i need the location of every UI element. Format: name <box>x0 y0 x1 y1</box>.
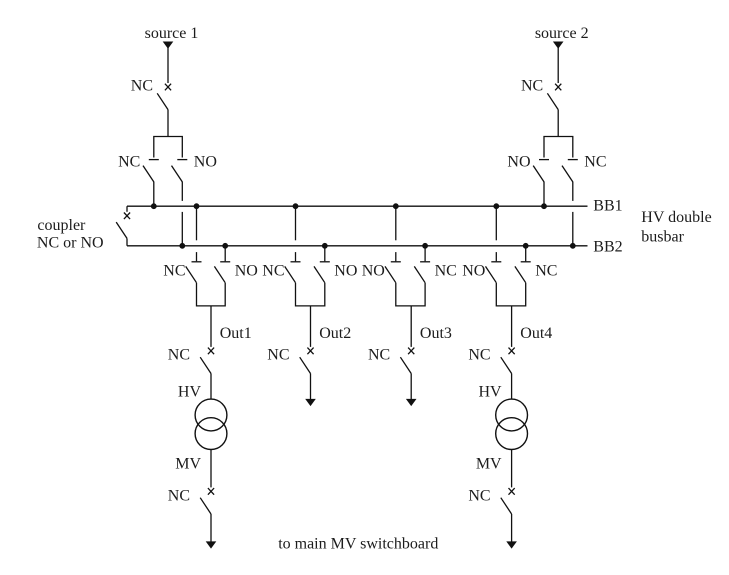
feeder Out2 junction on BB1 <box>293 204 298 209</box>
feeder Out3 left selector blade <box>385 266 396 282</box>
source 2 busbar selector bracket <box>544 137 573 158</box>
svg-text:Out3: Out3 <box>420 325 452 342</box>
source 1 left branch wire to BB1 <box>153 182 155 207</box>
feeder Out1 MV breaker x mark <box>208 488 214 495</box>
svg-text:coupler: coupler <box>37 217 86 234</box>
coupler wire stub to BB2 <box>126 238 128 245</box>
source 1 junction on BB1 <box>151 204 156 209</box>
feeder Out3 breaker x mark <box>408 348 414 355</box>
source 1 disconnector blade <box>157 93 168 109</box>
source 2 selector left blade <box>533 166 544 182</box>
source 1 breaker x mark <box>165 84 171 91</box>
source 1 incomer wire <box>167 47 169 83</box>
svg-text:NO: NO <box>462 263 485 280</box>
svg-text:source 1: source 1 <box>145 25 199 42</box>
source 1 right branch wire crossing BB1 to BB2 <box>181 212 183 246</box>
svg-text:HV double: HV double <box>641 209 711 226</box>
svg-text:to main MV switchboard: to main MV switchboard <box>278 536 438 553</box>
svg-text:NO: NO <box>194 153 217 170</box>
coupler breaker x mark <box>124 213 130 220</box>
svg-text:Out1: Out1 <box>220 325 252 342</box>
svg-text:BB1: BB1 <box>593 197 622 214</box>
source 1 busbar selector bracket <box>154 137 183 158</box>
feeder Out2 left selector blade <box>285 266 296 282</box>
source 2 wire to busbar selector <box>557 110 559 137</box>
feeder Out3 selector bracket <box>396 283 425 306</box>
source 1 right branch wire upper <box>181 182 183 201</box>
feeder Out1 junction on BB1 <box>194 204 199 209</box>
feeder Out3 outgoing wire <box>410 306 412 347</box>
feeder Out4 transformer T4 <box>496 399 528 449</box>
svg-text:MV: MV <box>175 455 201 472</box>
feeder Out4 selector bracket <box>496 283 525 306</box>
feeder Out1 left selector blade <box>186 266 197 282</box>
feeder Out2 right fixed contact <box>320 261 330 263</box>
source 2 left branch wire to BB1 <box>543 182 545 207</box>
svg-text:NC: NC <box>521 78 543 95</box>
source 2 junction on BB2 <box>570 243 575 248</box>
svg-text:NO: NO <box>235 263 258 280</box>
feeder Out4 left wire below BB2 crossing <box>495 252 497 261</box>
feeder Out4 right selector blade <box>515 266 526 282</box>
feeder Out3 junction on BB1 <box>393 204 398 209</box>
feeder Out2 disconnector blade <box>300 357 311 373</box>
feeder Out4 wire to transformer <box>511 374 513 400</box>
feeder Out2 outgoing wire <box>310 306 312 347</box>
feeder Out1 disconnector blade <box>200 357 211 373</box>
feeder Out1 outgoing wire <box>210 306 212 347</box>
svg-text:NC: NC <box>168 347 190 364</box>
feeder Out1 outgoing arrow to MV switchboard <box>206 541 217 548</box>
feeder Out1 junction on BB2 <box>223 243 228 248</box>
feeder Out1 MV side wire <box>210 450 212 488</box>
source 2 selector right blade <box>562 166 573 182</box>
feeder Out1 right selector blade <box>214 266 225 282</box>
svg-text:Out2: Out2 <box>319 325 351 342</box>
svg-text:Out4: Out4 <box>520 325 552 342</box>
feeder Out2 left wire from BB1 <box>295 206 297 240</box>
svg-text:NC: NC <box>267 347 289 364</box>
svg-text:NC: NC <box>168 488 190 505</box>
svg-text:HV: HV <box>478 383 502 400</box>
coupler wire stub from BB1 <box>126 206 128 212</box>
source 2 selector left fixed contact <box>539 159 549 161</box>
source 2 breaker x mark <box>555 84 561 91</box>
svg-text:source 2: source 2 <box>535 25 589 42</box>
feeder Out3 left wire below BB2 crossing <box>395 252 397 261</box>
source 2 disconnector blade <box>547 93 558 109</box>
source 2 selector right fixed contact <box>568 159 578 161</box>
feeder Out4 left selector blade <box>486 266 497 282</box>
feeder Out2 selector bracket <box>296 283 325 306</box>
svg-text:NO: NO <box>362 263 385 280</box>
feeder Out4 right fixed contact <box>521 261 531 263</box>
feeder Out4 MV breaker x mark <box>509 488 515 495</box>
feeder Out4 outgoing wire <box>511 306 513 347</box>
source 2 incoming feed arrow <box>553 42 564 49</box>
feeder Out2 outgoing arrow <box>305 399 316 406</box>
feeder Out4 MV disconnector blade <box>501 498 512 514</box>
source 1 incoming feed arrow <box>163 42 174 49</box>
feeder Out4 MV side wire <box>511 450 513 488</box>
feeder Out3 wire to MV arrow <box>410 374 412 401</box>
feeder Out3 left wire from BB1 <box>395 206 397 240</box>
feeder Out1 right wire from BB2 <box>224 246 226 261</box>
busbar BB2 <box>127 245 588 247</box>
source 1 selector right blade <box>172 166 183 182</box>
svg-text:NC: NC <box>163 263 185 280</box>
feeder Out3 left fixed contact <box>391 261 401 263</box>
feeder Out4 right wire from BB2 <box>525 246 527 261</box>
feeder Out4 outgoing arrow to MV switchboard <box>506 541 517 548</box>
feeder Out1 left wire from BB1 <box>196 206 198 240</box>
feeder Out4 wire to MV switchboard arrow <box>511 514 513 542</box>
svg-text:BB2: BB2 <box>593 238 622 255</box>
feeder Out2 junction on BB2 <box>322 243 327 248</box>
source 2 right branch wire upper <box>572 182 574 201</box>
feeder Out2 left fixed contact <box>291 261 301 263</box>
feeder Out4 junction on BB1 <box>494 204 499 209</box>
feeder Out1 left fixed contact <box>192 261 202 263</box>
feeder Out1 left wire below BB2 crossing <box>196 252 198 261</box>
source 1 selector left blade <box>143 166 154 182</box>
feeder Out1 wire to MV switchboard arrow <box>210 514 212 542</box>
svg-text:NC: NC <box>535 263 557 280</box>
busbar BB1 <box>127 205 588 207</box>
svg-text:NC: NC <box>468 488 490 505</box>
feeder Out2 left wire below BB2 crossing <box>295 252 297 261</box>
feeder Out2 right selector blade <box>314 266 325 282</box>
feeder Out3 right fixed contact <box>420 261 430 263</box>
feeder Out3 right wire from BB2 <box>424 246 426 261</box>
svg-text:busbar: busbar <box>641 228 684 245</box>
svg-text:MV: MV <box>476 455 502 472</box>
feeder Out2 wire to MV arrow <box>310 374 312 401</box>
feeder Out4 left fixed contact <box>491 261 501 263</box>
source 2 right branch wire crossing BB1 to BB2 <box>572 212 574 246</box>
feeder Out4 disconnector blade <box>501 357 512 373</box>
source 1 selector left fixed contact <box>149 159 159 161</box>
svg-text:NC: NC <box>118 153 140 170</box>
source 1 selector right fixed contact <box>177 159 187 161</box>
feeder Out1 breaker x mark <box>208 348 214 355</box>
source 1 junction on BB2 <box>180 243 185 248</box>
feeder Out3 disconnector blade <box>400 357 411 373</box>
svg-text:NO: NO <box>507 153 530 170</box>
svg-text:NC: NC <box>435 263 457 280</box>
feeder Out4 left wire from BB1 <box>495 206 497 240</box>
source 2 junction on BB1 <box>542 204 547 209</box>
feeder Out2 breaker x mark <box>307 348 313 355</box>
svg-text:NO: NO <box>334 263 357 280</box>
feeder Out3 outgoing arrow <box>406 399 417 406</box>
svg-text:NC: NC <box>468 347 490 364</box>
coupler disconnector blade <box>116 222 127 238</box>
feeder Out1 right fixed contact <box>220 261 230 263</box>
feeder Out3 right selector blade <box>414 266 425 282</box>
feeder Out1 transformer T1 <box>195 399 227 449</box>
svg-text:NC: NC <box>262 263 284 280</box>
svg-text:NC: NC <box>131 78 153 95</box>
feeder Out1 wire to transformer <box>210 374 212 400</box>
feeder Out3 junction on BB2 <box>423 243 428 248</box>
feeder Out1 MV disconnector blade <box>200 498 211 514</box>
svg-text:NC or NO: NC or NO <box>37 234 104 251</box>
svg-text:HV: HV <box>178 383 202 400</box>
source 1 wire to busbar selector <box>167 110 169 137</box>
feeder Out2 right wire from BB2 <box>324 246 326 261</box>
feeder Out4 junction on BB2 <box>523 243 528 248</box>
source 2 incomer wire <box>557 47 559 83</box>
feeder Out1 selector bracket <box>197 283 226 306</box>
svg-text:NC: NC <box>368 347 390 364</box>
svg-text:NC: NC <box>584 153 606 170</box>
feeder Out4 breaker x mark <box>509 348 515 355</box>
